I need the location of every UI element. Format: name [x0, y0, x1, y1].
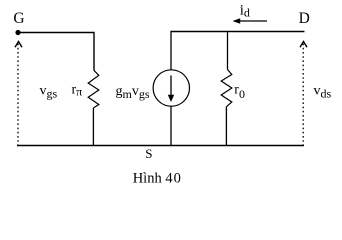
- current i_d arrow head: [233, 18, 241, 24]
- svg-text:S: S: [145, 146, 152, 161]
- voltage annotation v_ds: arrowhead: [300, 42, 307, 48]
- wire: top rail D side: [170, 31, 304, 33]
- svg-text:G: G: [13, 10, 24, 27]
- svg-text:gmvgs: gmvgs: [116, 84, 150, 101]
- wire: r_pi bottom to S rail: [92, 108, 94, 146]
- svg-text:Hình 40: Hình 40: [133, 170, 181, 186]
- wire: r_o top: [227, 32, 229, 70]
- wire: r_o bottom to S rail: [225, 107, 227, 146]
- svg-text:r0: r0: [234, 82, 245, 101]
- current source G1: arrow shaft: [170, 76, 172, 98]
- svg-text:id: id: [240, 3, 250, 20]
- voltage annotation v_gs: dotted line: [17, 44, 19, 145]
- current source G1: arrow head: [168, 95, 174, 102]
- svg-text:D: D: [299, 10, 310, 27]
- svg-text:vds: vds: [314, 84, 332, 101]
- current source G1 (gm*vgs): circle: [153, 70, 189, 106]
- wire: current source top: [170, 32, 172, 71]
- svg-text:vgs: vgs: [40, 84, 58, 101]
- resistor r_o: [221, 70, 232, 107]
- current i_d arrow shaft: [237, 20, 267, 22]
- voltage annotation v_gs: arrowhead: [15, 42, 22, 48]
- wire: G node to r_pi top: [18, 33, 94, 71]
- bottom rail S: [17, 145, 304, 147]
- voltage annotation v_ds: dotted line: [302, 44, 304, 145]
- resistor R_pi: [88, 70, 99, 108]
- wire: current source bottom: [170, 106, 172, 146]
- svg-text:rπ: rπ: [72, 82, 83, 98]
- node G terminal dot: [15, 30, 20, 35]
